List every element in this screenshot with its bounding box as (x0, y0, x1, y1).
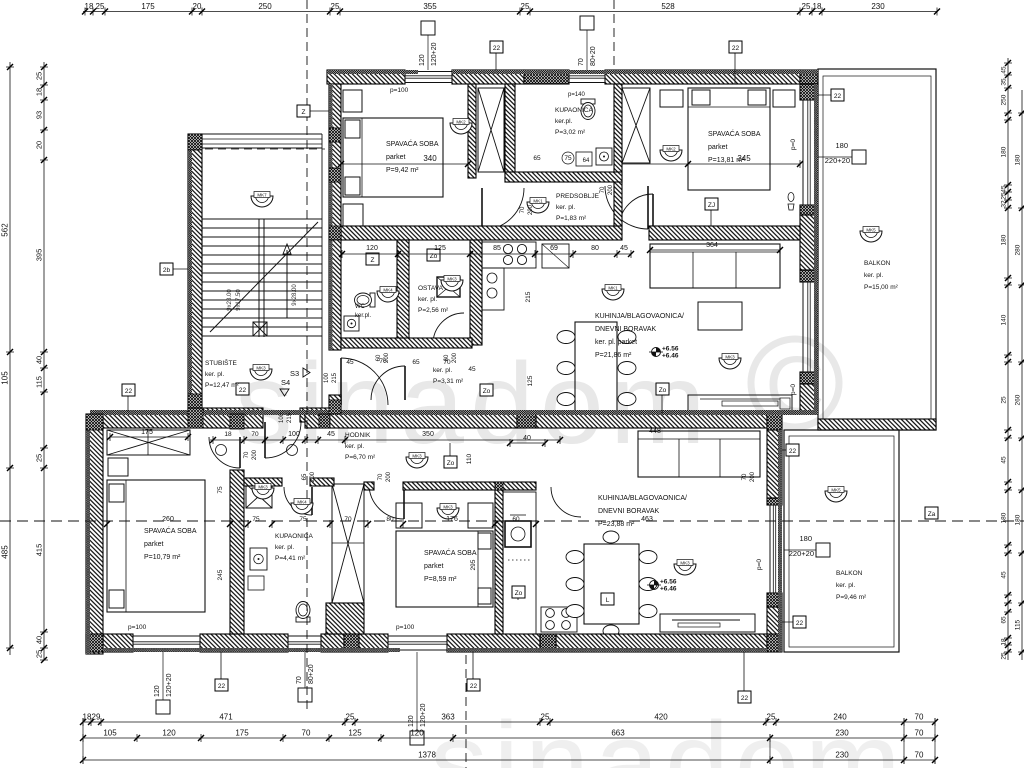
svg-text:250: 250 (258, 2, 272, 11)
svg-text:BALKON: BALKON (836, 570, 863, 577)
svg-text:DNEVNI BORAVAK: DNEVNI BORAVAK (595, 326, 657, 333)
svg-text:355: 355 (423, 2, 437, 11)
svg-text:45: 45 (1001, 185, 1008, 193)
svg-text:25: 25 (802, 2, 811, 11)
svg-text:180: 180 (799, 534, 812, 543)
svg-text:+6.46: +6.46 (660, 586, 677, 593)
svg-text:ker. pl.: ker. pl. (836, 582, 855, 589)
svg-text:+6.46: +6.46 (662, 353, 679, 360)
svg-text:45: 45 (1001, 571, 1008, 579)
svg-text:260: 260 (1015, 394, 1022, 405)
svg-text:70: 70 (443, 359, 451, 366)
svg-text:70: 70 (578, 58, 585, 66)
svg-text:562: 562 (1, 223, 10, 237)
svg-text:70: 70 (915, 751, 924, 760)
svg-text:P=3,31 m²: P=3,31 m² (433, 378, 464, 385)
svg-text:18: 18 (1001, 638, 1008, 646)
svg-text:93: 93 (35, 111, 44, 119)
svg-text:70: 70 (520, 206, 526, 213)
svg-text:100: 100 (288, 431, 300, 438)
svg-text:25: 25 (35, 650, 44, 658)
svg-text:115: 115 (1015, 619, 1022, 630)
svg-text:25: 25 (1001, 192, 1008, 200)
svg-text:70: 70 (600, 186, 606, 193)
svg-text:25: 25 (96, 2, 105, 11)
svg-text:MK3: MK3 (412, 454, 422, 459)
svg-text:75: 75 (217, 486, 224, 494)
svg-text:70: 70 (296, 676, 303, 684)
svg-text:215: 215 (287, 412, 293, 423)
svg-text:100: 100 (279, 412, 285, 423)
svg-text:22: 22 (239, 387, 247, 394)
svg-text:P=9,46 m²: P=9,46 m² (836, 594, 867, 601)
svg-text:40: 40 (35, 356, 44, 364)
svg-text:p=100: p=100 (390, 87, 409, 94)
svg-text:80+20: 80+20 (590, 46, 597, 66)
svg-text:64: 64 (583, 158, 590, 164)
svg-text:Zo: Zo (659, 387, 667, 394)
svg-text:+6.56: +6.56 (662, 346, 679, 353)
svg-text:P=4,41 m²: P=4,41 m² (275, 555, 306, 562)
svg-text:40: 40 (35, 636, 44, 644)
svg-text:ker.pl.: ker.pl. (355, 313, 371, 319)
svg-text:p=0: p=0 (756, 559, 763, 570)
svg-text:80+20: 80+20 (308, 664, 315, 684)
svg-text:P=1,83 m²: P=1,83 m² (556, 215, 587, 222)
svg-text:25: 25 (35, 72, 44, 80)
svg-text:25: 25 (767, 713, 776, 722)
svg-text:P=6,70 m²: P=6,70 m² (345, 454, 376, 461)
svg-text:120+20: 120+20 (420, 703, 427, 727)
svg-text:215: 215 (332, 372, 338, 383)
svg-text:29: 29 (92, 713, 101, 722)
svg-text:BALKON: BALKON (864, 260, 891, 267)
svg-text:75: 75 (252, 516, 260, 523)
svg-text:175: 175 (141, 2, 155, 11)
svg-text:115: 115 (35, 376, 44, 388)
svg-text:OSTAVA: OSTAVA (418, 285, 444, 292)
svg-text:250: 250 (1001, 94, 1008, 105)
svg-text:P=12,47 m²: P=12,47 m² (205, 382, 240, 389)
svg-text:45: 45 (327, 431, 335, 438)
svg-text:200: 200 (386, 471, 392, 482)
svg-text:MK2: MK2 (666, 147, 676, 152)
svg-text:MK3: MK3 (256, 366, 266, 371)
svg-text:9x28.00: 9x28.00 (292, 284, 298, 306)
svg-text:220+20: 220+20 (825, 156, 850, 165)
svg-text:45: 45 (1001, 456, 1008, 464)
svg-text:245: 245 (217, 569, 224, 580)
svg-text:485: 485 (1, 545, 10, 559)
svg-text:SPAVAĆA SOBA: SPAVAĆA SOBA (424, 548, 477, 557)
svg-text:25: 25 (541, 713, 550, 722)
svg-text:MK1: MK1 (533, 199, 543, 204)
svg-text:120: 120 (408, 715, 415, 727)
svg-text:20: 20 (193, 2, 202, 11)
svg-text:P=15,00 m²: P=15,00 m² (864, 284, 899, 291)
svg-text:parket: parket (386, 154, 406, 161)
svg-text:ker. pl.: ker. pl. (864, 272, 883, 279)
svg-text:100: 100 (324, 372, 330, 383)
svg-text:120: 120 (154, 685, 161, 697)
svg-text:MK3: MK3 (258, 485, 268, 490)
svg-text:230: 230 (835, 751, 849, 760)
svg-text:S3: S3 (290, 369, 299, 378)
svg-text:22: 22 (834, 93, 842, 100)
svg-text:Zo: Zo (515, 590, 523, 597)
svg-text:75: 75 (564, 155, 572, 162)
svg-text:471: 471 (219, 713, 233, 722)
svg-text:120: 120 (419, 54, 426, 66)
svg-text:45: 45 (346, 359, 354, 366)
svg-text:SPAVAĆA SOBA: SPAVAĆA SOBA (144, 526, 197, 535)
svg-text:P=9,42 m²: P=9,42 m² (386, 167, 419, 174)
svg-text:395: 395 (35, 249, 44, 262)
svg-text:parket: parket (424, 563, 444, 570)
svg-text:DNEVNI BORAVAK: DNEVNI BORAVAK (598, 508, 660, 515)
svg-text:p=0: p=0 (790, 139, 797, 150)
svg-text:85: 85 (493, 245, 501, 252)
svg-text:ker.pl.: ker.pl. (555, 118, 573, 125)
svg-text:20: 20 (35, 141, 44, 149)
svg-text:PREDSOBLJE: PREDSOBLJE (556, 193, 600, 200)
svg-text:ker. pl.: ker. pl. (556, 204, 575, 211)
svg-text:230: 230 (871, 2, 885, 11)
svg-text:105: 105 (103, 729, 117, 738)
svg-text:69: 69 (550, 245, 558, 252)
svg-text:125: 125 (434, 245, 446, 252)
svg-text:+6.56: +6.56 (660, 579, 677, 586)
svg-text:MK2: MK2 (456, 120, 466, 125)
svg-text:140: 140 (1001, 314, 1008, 325)
svg-text:S4: S4 (281, 378, 290, 387)
svg-text:40: 40 (523, 435, 531, 442)
svg-text:180: 180 (835, 141, 848, 150)
svg-text:260: 260 (162, 516, 174, 523)
svg-text:MK4: MK4 (383, 288, 393, 293)
svg-text:70: 70 (742, 473, 748, 480)
svg-text:P=23,88 m²: P=23,88 m² (598, 521, 635, 528)
svg-text:448: 448 (649, 428, 661, 435)
svg-text:22: 22 (470, 683, 478, 690)
svg-text:25: 25 (346, 713, 355, 722)
svg-text:70: 70 (344, 516, 352, 523)
svg-text:22: 22 (493, 45, 501, 52)
svg-text:65: 65 (533, 155, 541, 162)
svg-text:70: 70 (915, 729, 924, 738)
svg-text:p=100: p=100 (396, 624, 415, 631)
svg-text:parket: parket (144, 541, 164, 548)
svg-text:22: 22 (732, 45, 740, 52)
svg-text:MK3: MK3 (447, 277, 457, 282)
svg-text:P=8,59 m²: P=8,59 m² (424, 576, 457, 583)
svg-text:240: 240 (833, 713, 847, 722)
svg-text:MK4: MK4 (297, 500, 307, 505)
svg-text:ker. pl.: ker. pl. (275, 544, 294, 551)
svg-text:p=140: p=140 (568, 92, 586, 98)
svg-text:MK3: MK3 (680, 561, 690, 566)
svg-text:Zo: Zo (483, 388, 491, 395)
svg-text:180: 180 (1015, 154, 1022, 165)
svg-text:SPAVAĆA SOBA: SPAVAĆA SOBA (708, 129, 761, 138)
svg-text:P=21,86 m²: P=21,86 m² (595, 352, 632, 359)
svg-text:350: 350 (422, 431, 434, 438)
svg-text:2b: 2b (163, 267, 171, 274)
svg-text:463: 463 (641, 516, 653, 523)
svg-text:70: 70 (915, 713, 924, 722)
svg-text:Za: Za (928, 511, 936, 518)
svg-text:ker. pl.: ker. pl. (205, 371, 224, 378)
svg-text:ker. pl.: ker. pl. (418, 296, 437, 303)
svg-text:280: 280 (1015, 244, 1022, 255)
svg-text:180: 180 (1001, 234, 1008, 245)
svg-text:Z: Z (302, 109, 306, 116)
svg-text:75: 75 (299, 516, 307, 523)
svg-text:9x17.50: 9x17.50 (236, 289, 242, 311)
svg-text:70: 70 (251, 431, 259, 438)
svg-text:ker. pl.: ker. pl. (345, 443, 364, 450)
svg-text:WC: WC (355, 304, 366, 310)
svg-text:120: 120 (366, 245, 378, 252)
svg-text:32: 32 (1001, 200, 1008, 208)
svg-text:MK5: MK5 (831, 488, 841, 493)
svg-text:175: 175 (141, 429, 153, 436)
svg-text:45: 45 (468, 366, 476, 373)
svg-text:175: 175 (235, 729, 249, 738)
svg-text:120+20: 120+20 (166, 673, 173, 697)
svg-text:22: 22 (741, 695, 749, 702)
svg-text:MK7: MK7 (257, 193, 267, 198)
svg-text:SPAVAĆA SOBA: SPAVAĆA SOBA (386, 139, 439, 148)
svg-text:70: 70 (378, 473, 384, 480)
svg-text:parket: parket (708, 144, 728, 151)
svg-text:70: 70 (244, 451, 250, 458)
svg-text:45: 45 (1001, 66, 1008, 74)
svg-text:200: 200 (310, 471, 316, 482)
svg-text:110: 110 (466, 453, 473, 464)
svg-text:105: 105 (1, 371, 10, 385)
svg-text:180: 180 (1015, 514, 1022, 525)
svg-text:120+20: 120+20 (431, 42, 438, 66)
svg-text:KUHINJA/BLAGOVAONICA/: KUHINJA/BLAGOVAONICA/ (598, 495, 687, 502)
svg-text:230: 230 (835, 729, 849, 738)
svg-text:60: 60 (512, 516, 520, 523)
svg-text:65: 65 (302, 473, 308, 480)
svg-text:220+20: 220+20 (789, 549, 814, 558)
svg-text:MK3: MK3 (443, 505, 453, 510)
svg-text:sinadom: sinadom (235, 340, 712, 468)
svg-text:25: 25 (35, 454, 44, 462)
svg-text:ZJ: ZJ (708, 202, 715, 209)
svg-text:180: 180 (1001, 512, 1008, 523)
svg-text:70: 70 (302, 729, 311, 738)
svg-text:P=10,79 m²: P=10,79 m² (144, 554, 181, 561)
svg-text:MK3: MK3 (725, 355, 735, 360)
svg-text:P=3,02 m²: P=3,02 m² (555, 129, 586, 136)
svg-text:25: 25 (1001, 396, 1008, 404)
svg-text:415: 415 (35, 544, 44, 557)
svg-text:364: 364 (706, 242, 718, 249)
svg-text:120: 120 (162, 729, 176, 738)
svg-text:KUPAONICA: KUPAONICA (555, 107, 593, 114)
svg-text:18: 18 (224, 431, 232, 438)
svg-text:663: 663 (611, 729, 625, 738)
svg-text:18: 18 (35, 88, 44, 96)
svg-text:80: 80 (591, 245, 599, 252)
svg-text:200: 200 (252, 449, 258, 460)
svg-text:295: 295 (470, 559, 477, 570)
svg-text:363: 363 (441, 713, 455, 722)
svg-text:180: 180 (1001, 146, 1008, 157)
svg-text:25: 25 (521, 2, 530, 11)
svg-text:KUHINJA/BLAGOVAONICA/: KUHINJA/BLAGOVAONICA/ (595, 313, 684, 320)
svg-text:200: 200 (750, 471, 756, 482)
svg-text:MK1: MK1 (608, 286, 618, 291)
svg-text:215: 215 (525, 291, 532, 302)
svg-text:70: 70 (379, 358, 387, 365)
svg-text:HODNIK: HODNIK (345, 432, 371, 439)
svg-text:65: 65 (412, 359, 420, 366)
svg-text:340: 340 (423, 154, 437, 163)
svg-text:125: 125 (348, 729, 362, 738)
svg-text:528: 528 (661, 2, 675, 11)
svg-text:ker. pl.: ker. pl. (433, 367, 452, 374)
svg-text:STUBIŠTE: STUBIŠTE (205, 358, 237, 367)
svg-text:22: 22 (796, 620, 804, 627)
svg-text:22: 22 (789, 448, 797, 455)
svg-text:22: 22 (125, 388, 133, 395)
svg-text:KUPAONICA: KUPAONICA (275, 533, 313, 540)
svg-text:125: 125 (527, 375, 534, 386)
svg-text:Zo: Zo (447, 460, 455, 467)
svg-text:1378: 1378 (418, 751, 436, 760)
svg-text:420: 420 (654, 713, 668, 722)
svg-text:P=13,81 m²: P=13,81 m² (708, 157, 745, 164)
svg-text:22: 22 (218, 683, 226, 690)
svg-text:25: 25 (1001, 652, 1008, 660)
svg-text:176: 176 (446, 516, 458, 523)
svg-text:35: 35 (1001, 78, 1008, 86)
svg-text:200: 200 (452, 352, 458, 363)
svg-text:80: 80 (386, 516, 394, 523)
svg-text:MK5: MK5 (866, 228, 876, 233)
svg-text:p=0: p=0 (790, 384, 797, 395)
svg-text:200: 200 (608, 184, 614, 195)
svg-text:p=100: p=100 (128, 624, 147, 631)
svg-text:200: 200 (528, 204, 534, 215)
svg-text:Z: Z (371, 257, 375, 264)
svg-text:18: 18 (813, 2, 822, 11)
svg-text:65: 65 (1001, 616, 1008, 624)
svg-text:9x28.00: 9x28.00 (227, 289, 233, 311)
svg-text:L: L (606, 597, 610, 604)
svg-text:45: 45 (620, 245, 628, 252)
svg-text:ker. pl. parket: ker. pl. parket (595, 339, 637, 346)
svg-text:P=2,56 m²: P=2,56 m² (418, 307, 449, 314)
svg-text:25: 25 (331, 2, 340, 11)
svg-text:18: 18 (85, 2, 94, 11)
